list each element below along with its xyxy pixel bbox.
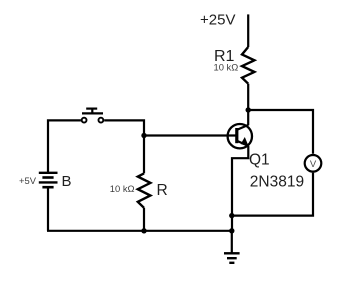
wire: top of voltmeter loop [248,110,313,154]
wire: voltmeter bottom loop back to emitter node [232,173,313,216]
svg-text:R: R [157,182,168,199]
ground [224,231,240,263]
svg-text:2N3819: 2N3819 [250,174,304,191]
wire: emitter lead down-step-left-down to ground rail [232,146,248,231]
svg-text:Q1: Q1 [249,152,270,169]
svg-text:+5V: +5V [19,175,37,186]
wire: base wire from node to transistor base bar [144,134,236,136]
wire: R lower lead to bottom rail [143,208,145,231]
svg-text:10 kΩ: 10 kΩ [214,62,239,73]
node: collector / voltmeter junction [246,107,251,112]
battery B [39,173,58,187]
wire: top rail from switch to corner above R branch [104,120,144,173]
node: R bottom on ground rail [141,228,146,233]
switch (pushbutton, normally open) [82,109,104,123]
wire: left rail bottom (battery- down to bottom rail) [47,187,49,231]
wire: left rail top (battery+ up to top-left corner) [48,120,81,172]
wire: +25V supply lead down to R1 [247,14,249,47]
resistor R (10 kOhm) [138,173,151,207]
wire: R1 bottom to collector node [247,84,249,126]
node A: junction of switch rail / R / base [141,133,146,138]
svg-text:10 kΩ: 10 kΩ [110,183,135,194]
transistor Q1 (2N3819) [228,124,252,148]
voltmeter V [305,155,322,172]
svg-text:+25V: +25V [200,11,235,28]
node: ground junction on bottom rail [229,228,234,233]
svg-text:B: B [62,173,72,190]
resistor R1 (10 kOhm) [242,47,254,84]
node: emitter branch / voltmeter return junction [229,213,234,218]
wire: bottom rail [47,230,232,232]
svg-text:V: V [310,159,317,170]
